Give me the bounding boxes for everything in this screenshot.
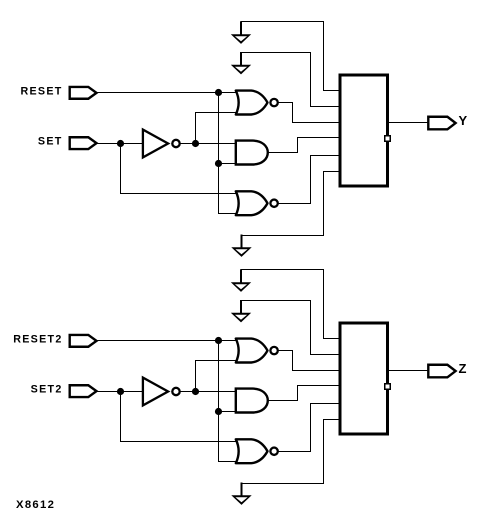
function generator block (lower latch) xyxy=(340,323,388,434)
svg-text:RESET: RESET xyxy=(20,85,62,97)
wire ground C to block xyxy=(242,172,340,248)
wire inverter output to AND gate input xyxy=(181,391,236,393)
inverter (SET2) xyxy=(143,378,168,406)
node RESET2 junction at AND gate branch xyxy=(215,408,222,415)
NOR gate (lower) xyxy=(236,439,268,463)
svg-text:X8612: X8612 xyxy=(16,499,55,511)
wire ground A to block xyxy=(241,22,340,91)
node RESET2 junction at NOR gate input xyxy=(215,337,222,344)
output connector Y xyxy=(428,117,455,130)
wire inverter output to AND gate input xyxy=(181,143,236,145)
wire inverter output to upper NOR gate input xyxy=(196,361,238,392)
node SET junction xyxy=(117,140,124,147)
wire RESET net to AND gate input xyxy=(219,163,237,165)
AND gate (middle) xyxy=(236,389,268,413)
wire lower NOR output to block xyxy=(279,404,340,452)
inverter (SET) xyxy=(143,130,168,158)
wire upper NOR output to block xyxy=(279,103,340,123)
node SET2 junction xyxy=(117,388,124,395)
wire ground B to block xyxy=(241,301,340,355)
ground symbol C xyxy=(241,483,243,496)
input connector SET2 xyxy=(70,385,97,397)
ground symbol A xyxy=(240,269,242,282)
wire block output to Z xyxy=(388,370,429,372)
input connector RESET xyxy=(70,87,97,99)
wire SET to inverter xyxy=(97,143,144,145)
wire SET2 to inverter xyxy=(97,391,144,393)
wire RESET to NOR gate input xyxy=(97,92,238,94)
wire RESET net vertical to lower NOR gate xyxy=(219,93,238,214)
ground symbol B xyxy=(240,300,242,313)
AND gate (middle) xyxy=(236,141,268,165)
wire ground B to block xyxy=(241,53,340,107)
svg-text:Y: Y xyxy=(459,113,469,128)
svg-text:RESET2: RESET2 xyxy=(13,333,62,345)
output connector Z xyxy=(428,365,455,378)
ground symbol A xyxy=(240,21,242,34)
node RESET junction at AND gate branch xyxy=(215,160,222,167)
clock marker square on block edge xyxy=(385,384,391,390)
wire AND output to block xyxy=(268,138,340,153)
wire ground A to block xyxy=(241,270,340,339)
NOR gate (upper) xyxy=(236,339,268,363)
wire upper NOR output to block xyxy=(279,351,340,371)
wire inverter output to upper NOR gate input xyxy=(196,113,238,144)
wire SET net to lower NOR gate input xyxy=(121,144,238,194)
wire lower NOR output to block xyxy=(279,156,340,204)
NOR gate (upper) xyxy=(236,91,268,115)
svg-text:Z: Z xyxy=(459,361,468,376)
input connector RESET2 xyxy=(70,335,97,347)
svg-text:SET2: SET2 xyxy=(31,384,63,396)
NOR gate (lower) xyxy=(236,191,268,215)
wire AND output to block xyxy=(268,386,340,401)
node RESET junction at NOR gate input xyxy=(215,89,222,96)
node inverter output junction xyxy=(192,388,199,395)
wire block output to Y xyxy=(388,122,429,124)
ground symbol C xyxy=(241,235,243,248)
ground symbol B xyxy=(240,52,242,65)
node inverter output junction xyxy=(192,140,199,147)
wire RESET2 net to AND gate input xyxy=(219,411,237,413)
input connector SET xyxy=(70,137,97,149)
function generator block (upper latch) xyxy=(340,75,388,186)
wire SET2 net to lower NOR gate input xyxy=(121,392,238,442)
wire RESET2 to NOR gate input xyxy=(97,340,238,342)
clock marker square on block edge xyxy=(385,136,391,142)
wire ground C to block xyxy=(242,420,340,496)
svg-text:SET: SET xyxy=(38,136,63,148)
wire RESET2 net vertical to lower NOR gate xyxy=(219,341,238,462)
